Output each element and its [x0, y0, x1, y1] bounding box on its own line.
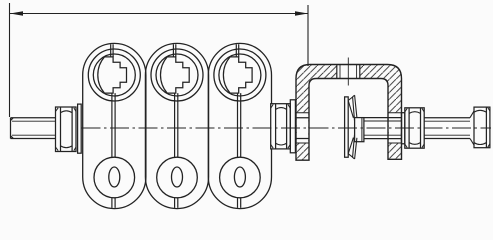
- left washer: [78, 104, 82, 153]
- bridge threaded hole: [337, 65, 360, 79]
- plate 3: [208, 43, 271, 208]
- bolt collar: [355, 118, 364, 142]
- bolt head: [474, 107, 490, 148]
- arrowhead right: [295, 11, 308, 16]
- mask bridge hole: [337, 65, 360, 78]
- mask rod holes in legs: [297, 113, 309, 143]
- dimension line: [10, 13, 308, 15]
- clamp body outline: [296, 65, 402, 161]
- left bolt thread lines: [12, 121, 56, 135]
- clamp bolt thread lines: [364, 121, 402, 135]
- locking blade upper: [352, 95, 357, 117]
- right leg hole edges: [388, 113, 402, 143]
- middle washer: [290, 100, 295, 153]
- left hex nut: [56, 107, 77, 152]
- plate 2: [145, 43, 208, 208]
- right bolt shaft: [424, 118, 470, 139]
- arrowhead left: [10, 11, 23, 16]
- rod end through left leg: [295, 118, 309, 139]
- clamp bolt shaft: [364, 118, 402, 139]
- pad lower cone: [348, 135, 354, 157]
- clamp body hatched section: [296, 65, 402, 161]
- pad upper cone: [348, 97, 354, 121]
- horizontal centerline: [82, 127, 492, 129]
- pressure pad plate: [345, 97, 349, 157]
- plate 1: [83, 43, 146, 208]
- left leg hole edges: [296, 113, 309, 143]
- left bolt shaft: [11, 118, 57, 139]
- right bolt thread lines: [424, 121, 470, 135]
- middle hex nut: [271, 104, 291, 149]
- bolt head flare: [470, 111, 474, 145]
- dimension extension line right: [307, 5, 309, 66]
- bridge hole centerline: [347, 58, 349, 86]
- locking blade lower: [352, 138, 357, 159]
- right washer: [402, 113, 405, 144]
- right hex nut: [405, 108, 424, 148]
- dimension extension line left: [9, 3, 11, 117]
